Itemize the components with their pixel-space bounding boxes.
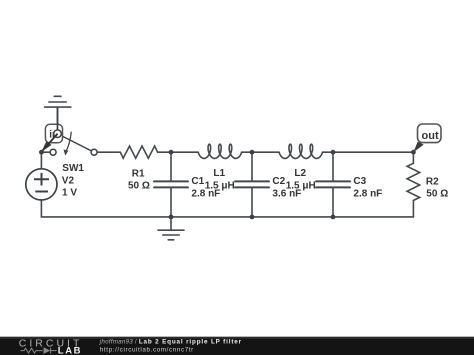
ground bottom	[158, 217, 184, 240]
resistor R1	[120, 146, 157, 158]
svg-text:LAB: LAB	[58, 346, 82, 355]
switch throw line to right	[58, 134, 95, 153]
flag in pointer	[41, 142, 51, 152]
switch right throw circle	[91, 149, 97, 155]
svg-text:SW1: SW1	[62, 163, 84, 174]
footer logo diode	[44, 347, 51, 354]
svg-text:50 Ω: 50 Ω	[426, 189, 448, 200]
svg-text:1.5 μH: 1.5 μH	[205, 181, 235, 192]
svg-text:R1: R1	[132, 168, 145, 179]
capacitor C3	[316, 181, 350, 187]
source V2	[26, 169, 57, 200]
ground top (flipped)	[45, 96, 71, 130]
svg-text:V2: V2	[62, 175, 75, 186]
footer bar	[0, 337, 474, 355]
wire C3 stems	[332, 152, 334, 217]
svg-text:2.8 nF: 2.8 nF	[353, 188, 382, 199]
wire R2 top	[412, 152, 414, 163]
capacitor C1	[154, 181, 188, 187]
wire node to L2	[252, 151, 279, 153]
svg-text:C1: C1	[191, 176, 204, 187]
wire L1 to node	[242, 151, 252, 153]
svg-text:L2: L2	[294, 168, 306, 179]
switch pivot circle (over wire)	[54, 130, 62, 138]
wire V2 top	[40, 152, 42, 169]
switch arc arrow	[66, 132, 71, 151]
flag in box	[45, 124, 62, 143]
inductor L1	[198, 144, 241, 158]
wire V2 bottom	[40, 200, 42, 217]
svg-text:C3: C3	[353, 176, 366, 187]
switch blade	[41, 134, 57, 152]
svg-text:out: out	[422, 130, 439, 142]
svg-text:C2: C2	[272, 176, 285, 187]
wire node to out	[333, 151, 413, 153]
inductor L2	[279, 144, 322, 158]
flag out	[413, 124, 441, 152]
switch SW1	[41, 107, 97, 156]
wire R1 to node in2	[158, 151, 171, 153]
wire into in-box	[57, 107, 59, 130]
wire top rail left (switch to R1)	[97, 151, 120, 153]
resistor R2	[407, 163, 420, 200]
wire C1 stems	[170, 152, 172, 217]
junction dots	[39, 150, 416, 220]
wire switch left	[41, 151, 50, 153]
svg-text:jhoffman93 / Lab 2 Equal rippl: jhoffman93 / Lab 2 Equal ripple LP filte…	[99, 338, 242, 345]
svg-text:50 Ω: 50 Ω	[128, 180, 150, 191]
wire C2 stems	[251, 152, 253, 217]
switch left throw circle	[50, 149, 56, 155]
footer logo doodle	[21, 348, 57, 354]
wire node to L1	[171, 151, 198, 153]
wire R2 bottom	[412, 200, 414, 217]
capacitor C2	[235, 181, 269, 187]
svg-text:http://circuitlab.com/cnnc7tr: http://circuitlab.com/cnnc7tr	[100, 346, 194, 353]
wire bottom rail	[41, 216, 413, 218]
svg-text:1.5 μH: 1.5 μH	[286, 181, 316, 192]
wire L2 to node	[322, 151, 333, 153]
svg-text:R2: R2	[426, 176, 439, 187]
svg-text:L1: L1	[213, 168, 225, 179]
svg-text:1 V: 1 V	[62, 187, 77, 198]
